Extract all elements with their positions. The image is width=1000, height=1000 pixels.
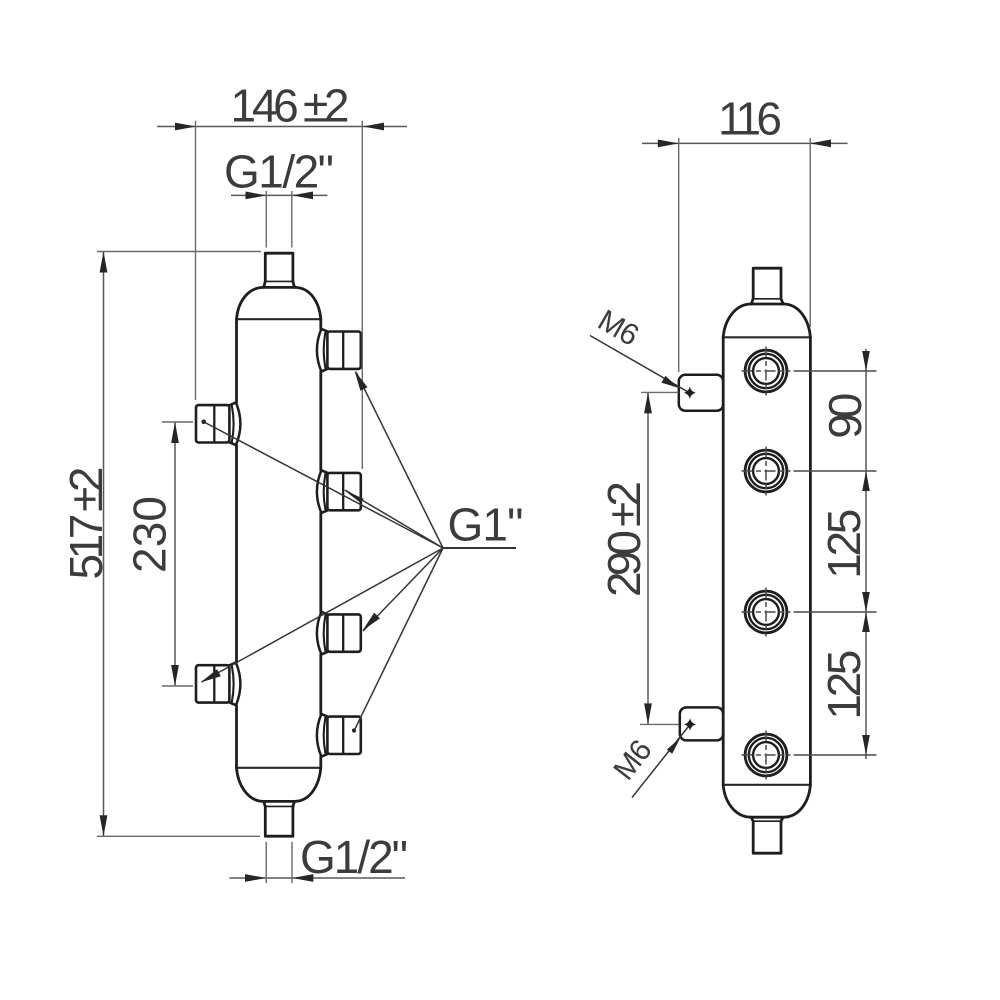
dim G1/2 bottom : line + extension lines — [230, 877, 406, 879]
body seam bottom — [723, 784, 810, 786]
dim 290 +/-2 — [647, 392, 649, 724]
threaded hole circles — [745, 350, 787, 776]
dim chain 90/125/125 — [865, 349, 867, 759]
arrows 146 — [175, 123, 196, 131]
svg-text:517 ±2: 517 ±2 — [60, 467, 112, 580]
svg-text:125: 125 — [818, 509, 870, 579]
dim G1/2 top : line + extension lines — [231, 194, 328, 196]
arrows 517 — [100, 252, 108, 273]
dim 230 : line + ticks — [174, 422, 176, 686]
body top nipple — [751, 268, 783, 304]
arrows G1/2 top — [246, 192, 267, 200]
left port B (G1, lower) — [196, 663, 240, 706]
vessel bottom nipple G1/2 — [264, 801, 295, 836]
arrows G1/2 bottom — [245, 874, 266, 882]
body walls — [722, 337, 725, 785]
arrows 230 — [171, 422, 179, 443]
body seam top — [723, 336, 810, 338]
svg-text:G1/2": G1/2" — [300, 831, 408, 883]
right port 3 (G1) — [317, 612, 361, 655]
mounting tab lower (M6) — [680, 707, 723, 740]
arrows 290 — [644, 392, 652, 413]
dimension arrowheads left figure — [100, 123, 384, 882]
svg-text:146 ±2: 146 ±2 — [231, 80, 350, 132]
svg-text:290 ±2: 290 ±2 — [598, 481, 650, 597]
M6 leader lower — [632, 725, 690, 798]
svg-text:116: 116 — [718, 93, 782, 145]
svg-text:230: 230 — [124, 496, 176, 573]
svg-text:125: 125 — [818, 650, 870, 720]
svg-text:G1": G1" — [448, 499, 524, 551]
G1 leader lines — [202, 372, 517, 730]
M6 marker star upper — [684, 387, 696, 399]
centrelines and reference lines of holes — [742, 347, 877, 780]
vessel top nipple G1/2 — [264, 253, 295, 287]
dim 146 +/-2 : line + extension lines — [157, 126, 407, 128]
arrows 90/125/125 chain — [862, 351, 870, 371]
left figure texts — [60, 80, 524, 884]
right port 4 (G1) — [317, 714, 361, 757]
arrows 116 — [658, 140, 679, 148]
vessel left wall segments — [235, 319, 238, 768]
right port 2 (G1) — [317, 470, 361, 513]
body bottom nipple — [751, 817, 783, 853]
dim 517 +/-2 : line + ticks — [103, 252, 105, 837]
vessel bottom dome — [237, 768, 321, 802]
svg-text:G1/2": G1/2" — [224, 146, 334, 198]
vessel right wall segments — [319, 319, 322, 768]
M6 marker star lower — [684, 718, 696, 730]
G1 leader terminators — [201, 371, 380, 733]
right port 1 (G1) — [317, 329, 361, 372]
bottom weld seam — [237, 767, 321, 769]
body bottom dome — [723, 785, 810, 817]
left port A (G1, upper) — [196, 403, 240, 446]
M6 leader upper — [590, 336, 690, 393]
vessel top dome — [237, 287, 321, 319]
body top dome — [723, 304, 810, 337]
dim 116 — [642, 142, 848, 144]
right figure texts — [598, 93, 871, 720]
mounting tab upper (M6) — [679, 375, 723, 411]
right figure arrowheads — [644, 140, 870, 756]
top weld seam — [237, 318, 321, 320]
svg-text:90: 90 — [819, 393, 871, 439]
